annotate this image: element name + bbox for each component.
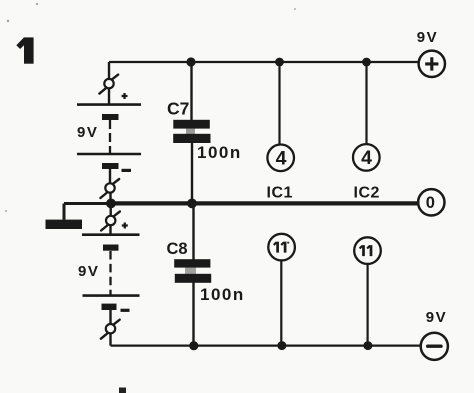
terminal -9V <box>421 333 448 360</box>
battery B2 <box>82 235 140 310</box>
pin 4 IC1 <box>267 145 294 172</box>
connector plug battery B2 + <box>101 212 120 231</box>
junction dot bottom rail / IC2 pin11 <box>363 341 372 350</box>
battery B1 <box>77 105 141 169</box>
junction dot bottom rail / IC1 pin11 <box>277 341 286 350</box>
junction dot bottom rail / C8 <box>189 341 198 350</box>
earth terminal bar <box>46 220 83 229</box>
+9V rail wire <box>109 61 419 63</box>
capacitor C8 <box>174 205 211 346</box>
connector plug battery B1 + <box>99 75 118 94</box>
wire connector to -9V rail corner <box>109 333 111 345</box>
figure number 1 <box>16 37 33 63</box>
node 0V junction (batteries) <box>106 199 116 209</box>
svg-text:100n: 100n <box>197 143 242 162</box>
pin 11 IC1 <box>268 234 295 261</box>
0V rail wire (bold) <box>111 201 420 205</box>
junction dot top rail / IC1 pin4 <box>275 58 284 67</box>
terminal +9V <box>419 51 445 77</box>
junction dot top rail / C7 <box>186 57 195 66</box>
wire 0V branch to earth bar <box>64 204 111 220</box>
wire connector to B2 top plate <box>109 225 111 234</box>
svg-text:9V: 9V <box>426 309 448 326</box>
svg-text:C7: C7 <box>167 99 189 119</box>
wire 0 junction to B2 connector <box>109 208 111 217</box>
svg-text:0: 0 <box>426 194 435 212</box>
svg-text:9V: 9V <box>78 263 99 280</box>
terminal 0V <box>418 189 444 215</box>
connector plug battery B1 - <box>100 179 119 198</box>
wire IC2 pin4 to +9V rail <box>365 62 367 145</box>
wire IC1 pin11 to -9V rail <box>280 260 282 346</box>
svg-text:C8: C8 <box>167 240 188 258</box>
svg-text:9V: 9V <box>77 124 98 141</box>
speck after 11 <box>287 242 289 244</box>
paper speckles <box>7 20 9 22</box>
wire connector to B1 top plate <box>108 89 110 105</box>
junction dot top rail / IC2 pin4 <box>362 58 371 67</box>
node 0V junction (C7/C8) <box>187 199 197 209</box>
label + (B2) <box>122 223 128 229</box>
capacitor C7 <box>173 62 210 201</box>
connector plug battery B2 - <box>101 320 120 339</box>
pin 4 IC2 <box>353 144 380 171</box>
label - (B2) <box>121 309 130 312</box>
svg-text:4: 4 <box>361 147 372 169</box>
wire IC1 pin4 to +9V rail <box>278 62 280 145</box>
svg-text:4: 4 <box>276 147 287 169</box>
wire B1 plus lead to rail corner <box>108 62 110 79</box>
svg-text:IC2: IC2 <box>354 185 380 202</box>
label + (B1) <box>122 93 128 99</box>
svg-text:9V: 9V <box>417 29 439 46</box>
label - (B1) <box>122 169 132 172</box>
wire connector to 0 junction <box>109 193 111 200</box>
wire B1 bottom plate to connector <box>109 169 111 184</box>
wire B2 bottom plate to connector <box>109 310 111 324</box>
svg-text:IC1: IC1 <box>267 185 293 202</box>
-9V rail wire <box>111 344 422 346</box>
svg-text:100n: 100n <box>200 285 245 304</box>
wire IC2 pin11 to -9V rail <box>367 264 369 346</box>
pin 11 IC2 <box>354 237 381 264</box>
stray mark bottom edge <box>119 388 126 393</box>
